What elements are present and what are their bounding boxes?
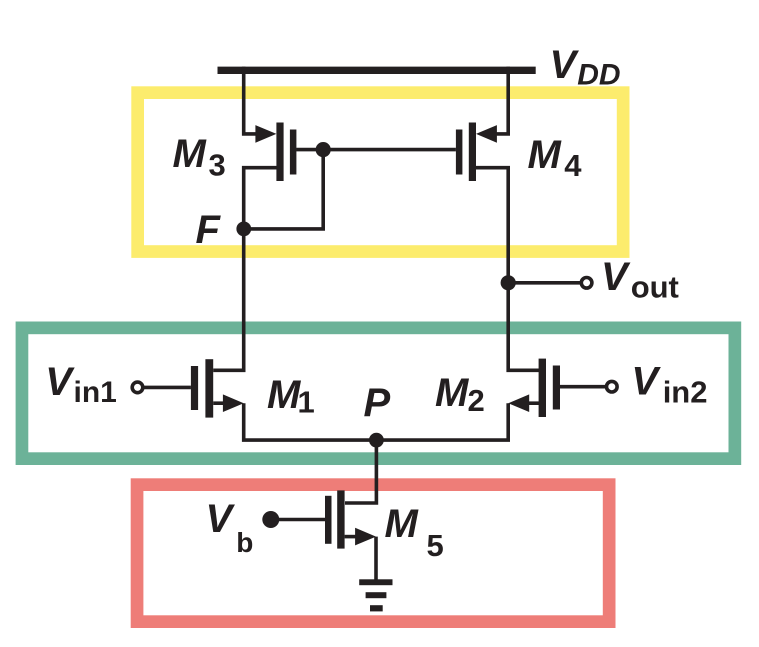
wire: Vout stub (508, 281, 581, 285)
svg-text:in2: in2 (663, 375, 708, 410)
svg-text:V: V (550, 43, 580, 87)
svg-text:out: out (631, 270, 679, 305)
junction: gate bus (316, 142, 331, 157)
wire: Vin1 to M1 gate (143, 386, 191, 390)
wire: M3 drain down through node F to M1 drain (213, 168, 280, 371)
wire: M1 source to tail rail to M2 source (244, 403, 509, 440)
label Vb (206, 497, 254, 558)
transistor M2 (NMOS) (508, 359, 560, 417)
svg-text:M: M (385, 502, 420, 546)
terminal: Vb dot (262, 511, 279, 528)
label M4 (528, 133, 583, 183)
node Vout junction (501, 275, 516, 290)
svg-text:M: M (528, 133, 563, 177)
label M2 (435, 371, 485, 418)
label Vin2 (631, 360, 707, 410)
label F (196, 208, 222, 252)
transistor M5 (NMOS) (325, 490, 376, 548)
wire: VDD to M4 source (495, 67, 509, 134)
svg-text:DD: DD (577, 59, 620, 92)
svg-text:V: V (206, 497, 236, 541)
terminal: Vout open circle (581, 278, 592, 289)
wire: M2 gate to Vin2 (560, 385, 607, 389)
svg-text:3: 3 (209, 147, 226, 182)
label Vin1 (45, 360, 117, 409)
svg-text:V: V (631, 360, 661, 404)
label M1 (267, 373, 315, 420)
svg-text:in1: in1 (74, 376, 117, 409)
svg-text:b: b (236, 527, 253, 558)
label M3 (173, 132, 226, 182)
node P junction (369, 433, 384, 448)
transistor M3 (PMOS) (255, 123, 296, 182)
node F junction (236, 222, 251, 237)
terminal: Vin1 open circle (132, 382, 143, 393)
label M5 (385, 502, 444, 563)
transistor M1 (NMOS) (191, 359, 244, 417)
wire: node P down to M5 drain (345, 440, 376, 503)
svg-text:V: V (601, 255, 631, 299)
svg-text:M: M (173, 132, 208, 176)
power rail VDD (218, 67, 536, 74)
box: differential pair (green) (22, 328, 735, 459)
wire: gate bus M3 to M4 (296, 148, 456, 152)
box: PMOS current-mirror load (yellow) (138, 93, 624, 252)
svg-text:F: F (196, 208, 222, 252)
label Vout (601, 255, 679, 305)
wire: M4 drain down through Vout node to M2 drain (472, 168, 539, 371)
svg-text:2: 2 (468, 383, 485, 418)
terminal: Vin2 open circle (607, 381, 618, 392)
box: tail current source (red) (137, 485, 609, 622)
svg-text:M: M (435, 371, 470, 415)
wire: VDD to M3 source (244, 67, 258, 134)
wire: Vb to M5 gate (271, 518, 325, 522)
label VDD (550, 43, 621, 92)
svg-text:4: 4 (564, 148, 582, 183)
svg-text:1: 1 (298, 385, 315, 420)
wire: diode connection gate to node F (244, 150, 323, 229)
svg-text:P: P (364, 381, 391, 425)
label P (364, 381, 391, 425)
ground (359, 579, 392, 611)
transistor M4 (PMOS) (456, 123, 497, 182)
wire: M5 source to ground (374, 537, 378, 581)
svg-text:V: V (45, 360, 75, 404)
svg-text:5: 5 (427, 528, 444, 563)
